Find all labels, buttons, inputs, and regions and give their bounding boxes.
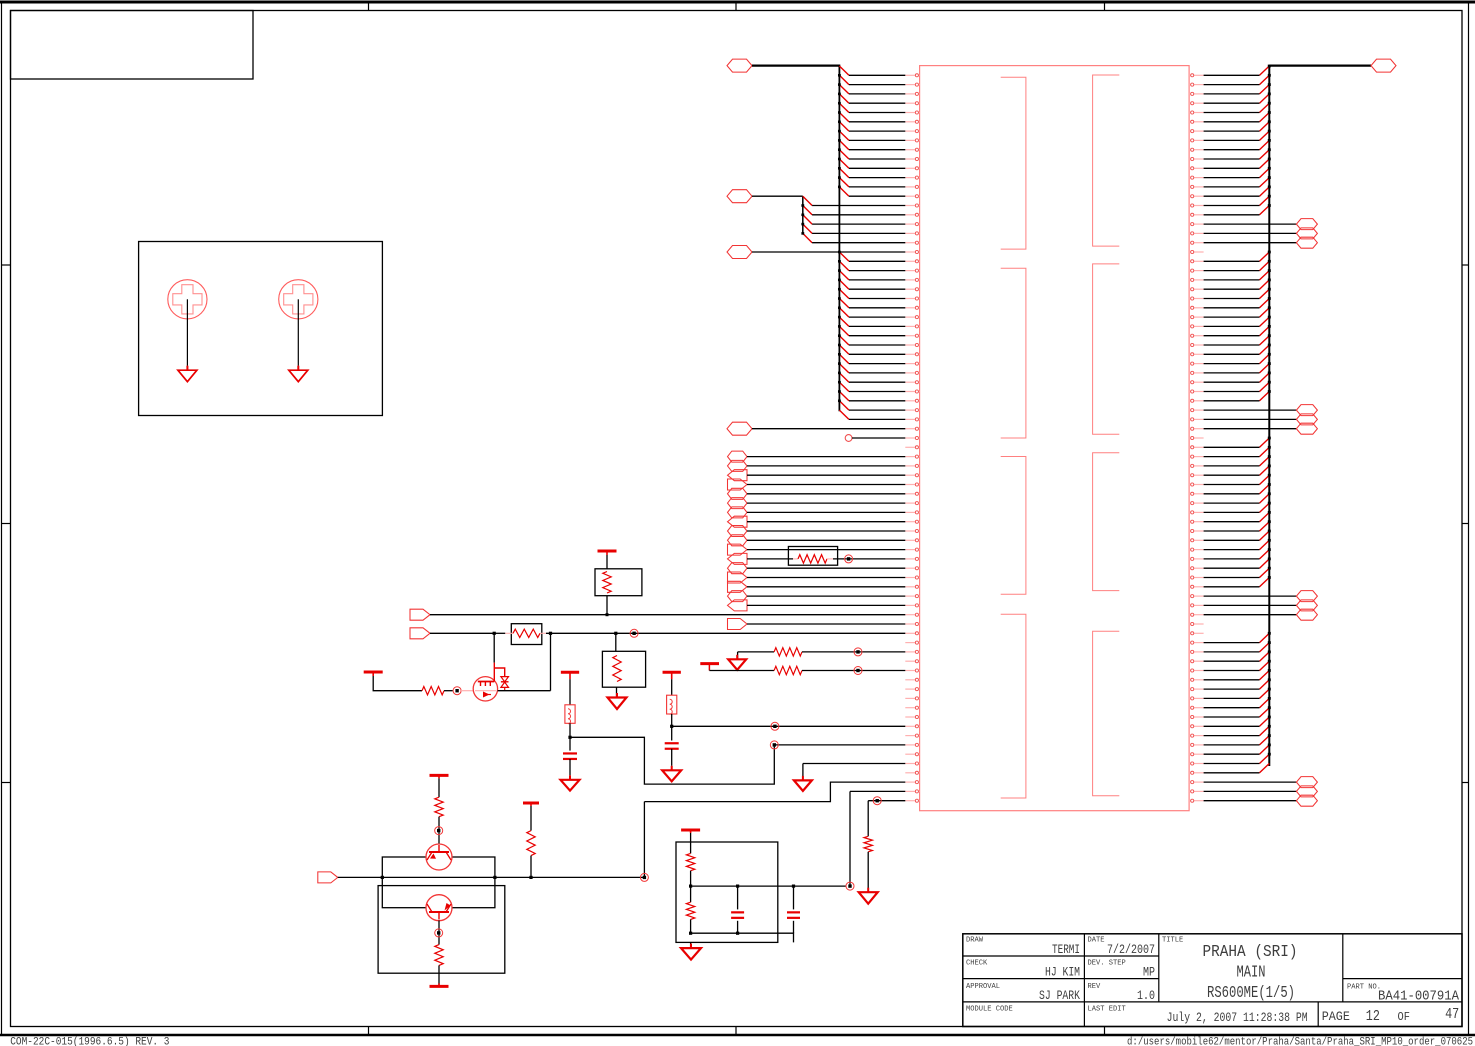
bus entry right row 23 — [1260, 269, 1271, 280]
bus entry left row 8 — [838, 130, 849, 141]
wire right row 14 — [1204, 195, 1260, 197]
mounting hole MH1 — [168, 280, 207, 371]
off-page connector G3c — [1296, 609, 1317, 620]
junction E3 drain branch — [549, 632, 552, 635]
junction E3 R4 branch — [614, 632, 617, 635]
bus entry right row 8 — [1260, 130, 1271, 141]
connector J1 left pin row 67 — [905, 688, 919, 691]
connector J1 right pin row 6 — [1189, 120, 1204, 123]
svg-text:APPROVAL: APPROVAL — [966, 983, 1000, 991]
connector J1 inner gate brackets right column — [1093, 75, 1120, 796]
connector J1 left pin row 44 — [905, 474, 919, 477]
connector J1 right pin row 67 — [1189, 688, 1204, 691]
connector J1 right pin row 36 — [1189, 399, 1204, 402]
bus entry right row 6 — [1260, 111, 1271, 122]
junction FB2 node — [568, 736, 571, 739]
junction mark main node — [640, 873, 648, 881]
wire right row 44 — [1204, 474, 1260, 476]
bus entry left row 34 — [838, 372, 849, 383]
connector J1 left pin row 54 — [905, 567, 919, 570]
connector J1 right pin row 59 — [1189, 613, 1204, 616]
wire stack row 4 to pin — [747, 484, 905, 486]
connector J1 left pin row 2 — [905, 83, 919, 86]
wire Q3 drain to riser — [498, 690, 551, 692]
connector J1 left pin row 65 — [905, 669, 919, 672]
bus entry mini row 15 — [803, 196, 812, 205]
connector J1 right pin row 69 — [1189, 706, 1204, 709]
svg-text:REV: REV — [1088, 983, 1101, 991]
connector J1 right pin row 3 — [1189, 92, 1204, 95]
wire B to mini bus — [752, 195, 803, 197]
wire right row 54 — [1204, 567, 1260, 569]
power rail T sideways for row 2 — [700, 664, 719, 671]
connector J1 right pin row 33 — [1189, 371, 1204, 374]
connector J1 right pin row 47 — [1189, 502, 1204, 505]
wire left row 25 — [849, 298, 905, 300]
wire R8 to ground — [867, 852, 869, 892]
wire FB2 down — [569, 723, 571, 737]
wire right to off-page connector G4a — [1204, 781, 1297, 783]
connector J1 right pin row 72 — [1189, 734, 1204, 737]
feedback loop rectangle 2 — [378, 886, 505, 974]
wire stack row 8 to pin — [747, 521, 905, 523]
bus entry right row 47 — [1260, 492, 1271, 503]
RC rail wire — [691, 885, 846, 887]
connector J1 right pin row 68 — [1189, 697, 1204, 700]
bus entry right row 21 — [1260, 251, 1271, 262]
connector J1 left pin row 35 — [905, 390, 919, 393]
bus entry right row 53 — [1260, 548, 1271, 559]
bus entry right row 55 — [1260, 567, 1271, 578]
connector J1 left pin row 70 — [905, 715, 919, 718]
connector J1 left pin row 55 — [905, 576, 919, 579]
wire right row 7 — [1204, 130, 1260, 132]
wire T to R9 — [530, 806, 532, 831]
off-page connector C — [727, 246, 752, 259]
wire left row 34 — [849, 381, 905, 383]
connector J1 left pin row 76 — [905, 771, 919, 774]
wire FB1 to row — [671, 714, 673, 726]
mounting hole box — [139, 242, 383, 416]
wire right row 75 — [1204, 763, 1260, 765]
wire stack row 13 to pin — [747, 567, 905, 569]
bus entry right row 28 — [1260, 316, 1271, 327]
connector J1 left pin row 21 — [905, 260, 919, 263]
RC bottom rail wire — [691, 933, 794, 942]
bus entry right row 74 — [1260, 744, 1271, 755]
power rail T for bead FB2 — [561, 671, 579, 674]
bus entry mini row 18 — [801, 223, 812, 234]
wire right row 64 — [1204, 660, 1260, 662]
bus entry right row 43 — [1260, 455, 1271, 466]
wire left row 14 — [849, 195, 905, 197]
connector J1 left pin row 48 — [905, 511, 919, 514]
svg-text:TITLE: TITLE — [1162, 937, 1183, 945]
connector J1 left pin row 60 — [905, 622, 919, 625]
wire right row 6 — [1204, 121, 1260, 123]
wire right row 13 — [1204, 186, 1260, 188]
bus entry right row 3 — [1260, 83, 1271, 94]
feedback loop rectangle 1 — [382, 857, 495, 908]
connector J1 left pin row 17 — [905, 223, 919, 226]
mini bus vertical — [802, 196, 804, 233]
wire right row 41 — [1204, 446, 1260, 448]
bus entry right row 67 — [1260, 678, 1271, 689]
bus entry right row 30 — [1260, 334, 1271, 345]
connector J1 left pin row 61 — [905, 632, 919, 635]
connector J1 right pin row 48 — [1189, 511, 1204, 514]
connector J1 left pin row 66 — [905, 678, 919, 681]
transistor Q1 PNP — [426, 844, 452, 870]
connector J1 left pin row 41 — [905, 446, 919, 449]
wire T to FB1 — [671, 679, 673, 695]
bus entry right row 32 — [1260, 353, 1271, 364]
wire right row 51 — [1204, 539, 1260, 541]
power rail T for Q3 gate network — [364, 671, 383, 674]
svg-text:PRAHA (SRI): PRAHA (SRI) — [1203, 942, 1298, 961]
bus entry right row 4 — [1260, 93, 1271, 104]
wire left row 23 — [849, 279, 905, 281]
bus entry right row 73 — [1260, 734, 1271, 745]
svg-text:d:/users/mobile62/mentor/Praha: d:/users/mobile62/mentor/Praha/Santa/Pra… — [1127, 1036, 1473, 1046]
off-page connector stack row 5 — [728, 488, 748, 499]
wire right row 45 — [1204, 484, 1260, 486]
bus entry right row 15 — [1260, 195, 1271, 206]
svg-text:DRAW: DRAW — [966, 937, 984, 945]
wire R5 to junction — [444, 690, 453, 692]
wire stack row 3 to pin — [747, 474, 905, 476]
connector J1 right pin row 39 — [1189, 427, 1204, 430]
bus entry right row 56 — [1260, 576, 1271, 587]
bus entry right row 52 — [1260, 539, 1271, 550]
capacitor C4 — [563, 737, 577, 775]
wire stack row 9 to pin — [747, 530, 905, 532]
wire left row 5 — [849, 112, 905, 114]
connector J1 right pin row 78 — [1189, 790, 1204, 793]
connector J1 right pin row 77 — [1189, 781, 1204, 784]
resistor R8 vertical — [864, 836, 872, 852]
connector J1 right pin row 19 — [1189, 241, 1204, 244]
wire right row 10 — [1204, 158, 1260, 160]
bus entry right row 66 — [1260, 669, 1271, 680]
connector J1 left pin row 25 — [905, 297, 919, 300]
connector J1 left pin row 69 — [905, 706, 919, 709]
connector J1 left pin row 26 — [905, 306, 919, 309]
connector J1 left pin row 36 — [905, 399, 919, 402]
svg-text:1.0: 1.0 — [1137, 989, 1155, 1003]
wire right row 43 — [1204, 465, 1260, 467]
junction rail cap1 — [736, 885, 739, 888]
title block text — [966, 937, 1460, 1026]
connector J1 right pin row 29 — [1189, 334, 1204, 337]
ground MH1 — [186, 366, 188, 371]
junction mark on E3 — [630, 629, 638, 637]
connector J1 right pin row 40 — [1189, 436, 1204, 439]
title block — [963, 934, 1462, 1027]
wire right row 71 — [1204, 725, 1260, 727]
connector J1 left pin row 29 — [905, 334, 919, 337]
wire left row 37 — [849, 409, 905, 411]
power rail T for RC box — [681, 829, 700, 832]
off-page connector stack row 15 — [728, 581, 748, 592]
wire stack row 2 to pin — [747, 465, 905, 467]
wire left row 33 — [849, 372, 905, 374]
connector J1 left pin row 33 — [905, 371, 919, 374]
wire right row 70 — [1204, 716, 1260, 718]
wire right row 12 — [1204, 177, 1260, 179]
bus entry right row 44 — [1260, 465, 1271, 476]
bus entry left row 31 — [838, 344, 849, 355]
off-page connector stack row 3 — [728, 470, 748, 481]
wire right row 73 — [1204, 744, 1260, 746]
mounting hole MH2 — [279, 280, 318, 371]
off-page connector stack row 14 — [728, 572, 748, 583]
connector J1 left pin row 62 — [905, 641, 919, 644]
bus entry left row 33 — [838, 362, 849, 373]
ground below C3 — [671, 766, 673, 771]
connector J1 left pin row 12 — [905, 176, 919, 179]
wire right row 8 — [1204, 139, 1260, 141]
connector J1 right pin row 46 — [1189, 492, 1204, 495]
off-page connector stack row 12 — [728, 553, 748, 564]
wire D to pin — [752, 428, 905, 430]
connector J1 left pin row 51 — [905, 539, 919, 542]
bus entry right row 24 — [1260, 279, 1271, 290]
connector J1 right pin row 32 — [1189, 362, 1204, 365]
junction mark above Q1 — [435, 827, 443, 835]
connector J1 left pin row 20 — [905, 250, 919, 253]
wire left row 32 — [849, 363, 905, 365]
wire right row 49 — [1204, 521, 1260, 523]
bus entry left row 35 — [838, 381, 849, 392]
wire left row 29 — [849, 335, 905, 337]
svg-text:PAGE: PAGE — [1322, 1010, 1350, 1024]
connector J1 right pin row 34 — [1189, 381, 1204, 384]
bus entry right row 75 — [1260, 753, 1271, 764]
wire left row 12 — [849, 177, 905, 179]
connector J1 left pin row 74 — [905, 753, 919, 756]
bus entry left row 3 — [838, 83, 849, 94]
wire right row 23 — [1204, 279, 1260, 281]
connector J1 left pin row 77 — [905, 781, 919, 784]
net stub with terminal circle — [845, 435, 905, 442]
off-page connector G3a — [1296, 591, 1317, 602]
wire stack row 15 to pin — [747, 586, 905, 588]
off-page connector G1c — [1296, 237, 1317, 248]
wire stack row 11 to pin — [747, 549, 905, 551]
connector J1 right pin row 62 — [1189, 641, 1204, 644]
bus entry left row 21 — [838, 251, 849, 262]
wire stack row 1 to pin — [747, 456, 905, 458]
wire row T2 left segment — [709, 670, 774, 672]
connector J1 right pin row 13 — [1189, 185, 1204, 188]
connector J1 left pin row 31 — [905, 353, 919, 356]
wire left row 18 — [812, 232, 905, 234]
ferrite bead FB2 — [565, 705, 575, 724]
bus entry right row 64 — [1260, 651, 1271, 662]
svg-text:PART NO.: PART NO. — [1347, 984, 1381, 992]
wire right row 9 — [1204, 149, 1260, 151]
wire left row 4 — [849, 102, 905, 104]
wire left row 24 — [849, 288, 905, 290]
connector J1 left pin row 46 — [905, 492, 919, 495]
wire stack row 12 to pin — [747, 558, 905, 560]
connector J1 left pin row 22 — [905, 269, 919, 272]
wire left row 36 — [849, 400, 905, 402]
wire right row 28 — [1204, 325, 1260, 327]
off-page connector E1 — [410, 609, 430, 620]
connector J1 right pin row 24 — [1189, 288, 1204, 291]
bus entry right row 31 — [1260, 344, 1271, 355]
connector J1 left pin row 75 — [905, 762, 919, 765]
off-page connector stack row 13 — [728, 563, 748, 574]
wire right row 33 — [1204, 372, 1260, 374]
ferrite bead FB1 — [667, 695, 677, 714]
connector J1 right pin row 44 — [1189, 474, 1204, 477]
connector J1 right pin row 1 — [1189, 74, 1204, 77]
connector J1 right pin row 21 — [1189, 260, 1204, 263]
connector J1 right pin row 57 — [1189, 595, 1204, 598]
wire row GND2 to pin — [803, 763, 905, 765]
junction mark FB1 row — [771, 722, 779, 730]
bus entry right row 13 — [1260, 176, 1271, 187]
wire left row 1 — [849, 74, 905, 76]
wire E3 to R4 box — [615, 633, 617, 651]
connector J1 left pin row 3 — [905, 92, 919, 95]
connector J1 right pin row 66 — [1189, 678, 1204, 681]
connector J1 right pin row 58 — [1189, 604, 1204, 607]
connector J1 left pin row 47 — [905, 502, 919, 505]
wire thick bus to off-page connector F — [1269, 64, 1371, 66]
bus entry right row 36 — [1260, 390, 1271, 401]
bus entry left row 27 — [838, 307, 849, 318]
wire E3 segment 2 — [494, 632, 905, 634]
junction rail cap2 — [792, 885, 795, 888]
connector J1 right pin row 75 — [1189, 762, 1204, 765]
connector J1 right pin row 31 — [1189, 353, 1204, 356]
wire left row 38 — [849, 418, 905, 420]
connector J1 left pin row 64 — [905, 660, 919, 663]
off-page connector E2 — [728, 619, 748, 630]
off-page connector stack row 9 — [728, 526, 748, 537]
power rail T for Q1 — [430, 774, 449, 777]
wire stack row 10 to pin — [747, 539, 905, 541]
connector J1 right pin row 38 — [1189, 418, 1204, 421]
wire right row 3 — [1204, 93, 1260, 95]
off-page connector stack row 4 — [728, 479, 748, 490]
off-page connector G1b — [1296, 228, 1317, 239]
bus entry right row 68 — [1260, 688, 1271, 699]
svg-text:CHECK: CHECK — [966, 960, 988, 968]
wire right row 29 — [1204, 335, 1260, 337]
connector J1 left pin row 45 — [905, 483, 919, 486]
wire right to off-page connector G3a — [1204, 595, 1297, 597]
wire right row 46 — [1204, 493, 1260, 495]
left data bus vertical — [838, 66, 840, 412]
off-page connector E3 — [410, 628, 430, 639]
bus entry right row 72 — [1260, 725, 1271, 736]
wire row T2 right segment — [802, 670, 905, 672]
wire right row 35 — [1204, 391, 1260, 393]
connector J1 left pin row 53 — [905, 557, 919, 560]
svg-text:RS600ME(1/5): RS600ME(1/5) — [1207, 983, 1295, 1002]
off-page connector A top-left of bus — [727, 59, 752, 72]
wire row OUT to pin — [644, 782, 905, 802]
resistor RP1 in box on stack rows — [788, 547, 837, 566]
wire right to off-page connector G3b — [1204, 604, 1297, 606]
svg-text:SJ PARK: SJ PARK — [1039, 989, 1080, 1003]
capacitor C2 — [787, 886, 800, 933]
resistor R4 in box — [602, 651, 645, 687]
connector J1 right pin row 41 — [1189, 446, 1204, 449]
bus entry left row 12 — [838, 167, 849, 178]
connector J1 right pin row 26 — [1189, 306, 1204, 309]
connector J1 left pin row 6 — [905, 120, 919, 123]
off-page connector F top-right — [1371, 59, 1396, 72]
connector J1 right pin row 16 — [1189, 213, 1204, 216]
wire R2 to row E1 — [606, 596, 608, 615]
wire right row 53 — [1204, 558, 1260, 560]
wire right row 34 — [1204, 381, 1260, 383]
wire right row 63 — [1204, 651, 1260, 653]
bus entry right row 14 — [1260, 186, 1271, 197]
wire junction to Q3 gate — [461, 690, 473, 692]
bus entry right row 46 — [1260, 483, 1271, 494]
wire R9 to main node — [530, 856, 532, 878]
connector J1 right pin row 8 — [1189, 139, 1204, 142]
bus entry left row 26 — [838, 297, 849, 308]
junction loop right — [493, 876, 496, 879]
svg-text:HJ KIM: HJ KIM — [1045, 966, 1080, 980]
wire right row 36 — [1204, 400, 1260, 402]
junction E3 gate branch — [493, 632, 496, 635]
bus entry right row 9 — [1260, 139, 1271, 150]
wire left row 3 — [849, 93, 905, 95]
wire right row 4 — [1204, 102, 1260, 104]
wire right to off-page connector G3c — [1204, 614, 1297, 616]
connector J1 right pin row 5 — [1189, 111, 1204, 114]
bus entry left row 6 — [838, 111, 849, 122]
off-page connector input IN1 — [318, 872, 338, 883]
wire left row 11 — [849, 167, 905, 169]
wire RC box to ground — [690, 942, 692, 948]
riser OUT down to main node — [643, 802, 645, 878]
connector J1 right pin row 12 — [1189, 176, 1204, 179]
wire right row 65 — [1204, 670, 1260, 672]
connector J1 right pin row 74 — [1189, 753, 1204, 756]
junction mark below Q2 — [435, 929, 443, 937]
off-page connector stack row 6 — [728, 498, 748, 509]
wire left row 21 — [849, 260, 905, 262]
bus entry mini row 17 — [801, 214, 812, 225]
connector J1 left pin row 79 — [905, 799, 919, 802]
connector J1 right pin row 71 — [1189, 725, 1204, 728]
wire right row 68 — [1204, 697, 1260, 699]
wire thick A to left bus — [752, 64, 840, 66]
resistor RP1 zigzag — [793, 555, 833, 563]
wire right row 30 — [1204, 344, 1260, 346]
svg-text:BA41-00791A: BA41-00791A — [1378, 990, 1460, 1005]
connector J1 left pin row 13 — [905, 185, 919, 188]
wire right row 62 — [1204, 642, 1260, 644]
bus entry left row 13 — [838, 176, 849, 187]
connector J1 right pin row 53 — [1189, 557, 1204, 560]
wire left row 35 — [849, 391, 905, 393]
off-page connector stack row 10 — [728, 535, 748, 546]
connector J1 right pin row 70 — [1189, 715, 1204, 718]
wire E1 to pin — [430, 614, 905, 616]
wire right to off-page connector G1c — [1204, 242, 1297, 244]
